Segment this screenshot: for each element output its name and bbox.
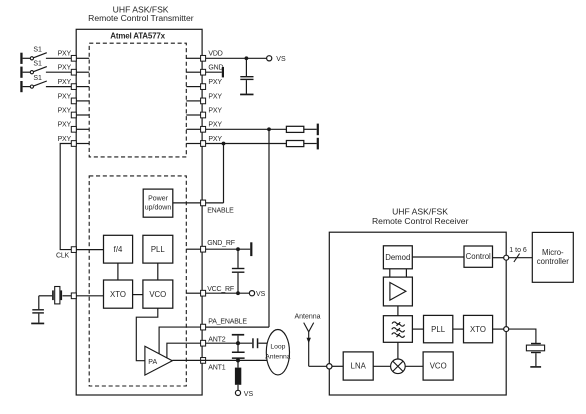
- svg-text:up/down: up/down: [145, 205, 172, 212]
- RF block (dashed): [89, 176, 186, 386]
- wire: GND_RF to ground tick: [206, 248, 251, 250]
- svg-text:PXY: PXY: [208, 93, 222, 100]
- svg-text:GND_RF: GND_RF: [207, 240, 235, 247]
- capacitor (crystal series): [32, 296, 44, 323]
- ground (rx crystal): [530, 366, 541, 368]
- svg-text:PXY: PXY: [58, 107, 72, 114]
- pin ANT2: [201, 336, 226, 346]
- block: PLL (rx): [424, 315, 453, 342]
- wire: mixer to VCO: [405, 365, 423, 367]
- resistor (row7): [286, 141, 316, 147]
- svg-text:XTO: XTO: [110, 290, 126, 299]
- terminal VS (ANT1 feed): [235, 390, 253, 398]
- svg-text:PXY: PXY: [58, 122, 72, 129]
- svg-text:LNA: LNA: [351, 362, 367, 371]
- loop antenna: [265, 330, 291, 375]
- pin CLK: [56, 247, 104, 260]
- wire: PXY row7 to resistor: [206, 143, 287, 145]
- junction GND_RF: [236, 247, 240, 251]
- termination bar (row7): [317, 138, 319, 150]
- terminal VS (supply): [267, 56, 286, 63]
- svg-text:Antenna: Antenna: [295, 313, 321, 320]
- svg-text:Power: Power: [148, 196, 169, 203]
- svg-text:XTO: XTO: [470, 325, 486, 334]
- antenna (rx): [295, 313, 321, 366]
- wire: VCC_RF to VS: [206, 292, 250, 294]
- svg-text:VS: VS: [256, 291, 266, 298]
- svg-text:PLL: PLL: [151, 245, 166, 254]
- bus slash (1 to 6): [509, 247, 527, 262]
- svg-text:ENABLE: ENABLE: [207, 207, 234, 214]
- block: VCO (tx): [143, 280, 173, 308]
- wire: VCO to PA input: [136, 308, 158, 361]
- junction ANT2 node: [236, 341, 240, 345]
- wire: XTO to edge terminal: [493, 328, 504, 330]
- wire: ANT2 pin to coupling cap: [206, 342, 253, 344]
- svg-text:PXY: PXY: [208, 79, 222, 86]
- terminal: XTO output: [504, 327, 509, 332]
- wire: row7 junction down to ENABLE: [223, 144, 225, 203]
- wire: left PXY7 to CLK loop: [60, 144, 71, 250]
- svg-text:Control: Control: [466, 252, 491, 261]
- svg-text:PXY: PXY: [208, 136, 222, 143]
- mixer: [391, 359, 406, 374]
- block: IF filter: [383, 316, 412, 343]
- svg-text:ANT2: ANT2: [208, 336, 225, 343]
- pin GND (right 2): [186, 65, 223, 75]
- svg-text:S1: S1: [33, 75, 42, 82]
- wire: PA_ENABLE into PA top: [159, 327, 201, 354]
- svg-text:Micro-: Micro-: [542, 248, 564, 257]
- junction VCC_RF: [236, 291, 240, 295]
- svg-text:PXY: PXY: [58, 51, 72, 58]
- svg-text:PXY: PXY: [58, 136, 72, 143]
- svg-text:controller: controller: [537, 257, 569, 266]
- wire: XTO to VCO: [133, 294, 143, 296]
- switch S1 (3): [20, 75, 71, 92]
- pin VDD (right 1): [186, 51, 222, 61]
- junction row7: [222, 142, 226, 146]
- pin PXY (left 5): [58, 107, 90, 117]
- pin VCC_RF: [186, 286, 234, 296]
- svg-text:Remote Control Receiver: Remote Control Receiver: [372, 216, 469, 226]
- switch S1 (2): [20, 61, 71, 78]
- svg-text:1 to 6: 1 to 6: [509, 247, 527, 254]
- wire: row6 junction down to PA_ENABLE: [268, 129, 270, 327]
- wire: filter to PLL: [412, 328, 423, 330]
- svg-text:VS: VS: [276, 56, 286, 63]
- pin PXY (left 3): [58, 79, 90, 89]
- pin GND_RF: [186, 240, 234, 252]
- block: PLL (tx): [143, 235, 173, 263]
- block: Micro-controller: [532, 232, 573, 282]
- inductor (ANT1 feed): [235, 360, 241, 390]
- terminal VS (VCC_RF): [249, 291, 265, 298]
- block: VCO (rx): [423, 352, 453, 380]
- svg-text:VCO: VCO: [430, 362, 447, 371]
- op-amp IF amplifier: [383, 277, 412, 306]
- block: Control: [464, 246, 493, 267]
- wire: Power up/down to ENABLE pin: [173, 202, 201, 204]
- svg-text:PXY: PXY: [58, 79, 72, 86]
- wire: Demod to Control: [412, 256, 464, 258]
- stub with bar above ANT2 node: [232, 334, 244, 343]
- pin PXY (right 5): [186, 107, 222, 117]
- wire: PA_ENABLE pin to row6 drop: [206, 326, 269, 328]
- capacitor (series to loop antenna): [252, 338, 267, 348]
- svg-text:PXY: PXY: [58, 65, 72, 72]
- bus: Demod to IF amplifier (double line): [390, 269, 407, 277]
- svg-text:VCO: VCO: [149, 290, 166, 299]
- wire: PA output / ANT1 to loop antenna: [172, 359, 267, 361]
- block: XTO (tx): [104, 280, 133, 308]
- block: f/4 divider: [104, 235, 133, 263]
- svg-text:PLL: PLL: [431, 325, 446, 334]
- wire: antenna to receiver input: [309, 365, 327, 367]
- svg-text:Demod: Demod: [385, 253, 410, 262]
- junction on VDD net: [245, 56, 249, 60]
- svg-text:VS: VS: [244, 391, 254, 398]
- terminal: antenna input: [327, 364, 332, 369]
- svg-text:ANT1: ANT1: [208, 364, 225, 371]
- svg-text:PXY: PXY: [208, 107, 222, 114]
- svg-text:PXY: PXY: [208, 122, 222, 129]
- wire: PLL to XTO: [453, 328, 464, 330]
- pin PXY (left 1): [58, 51, 90, 61]
- junction row6: [267, 127, 271, 131]
- wire: LNA to mixer: [373, 365, 390, 367]
- svg-text:Atmel ATA577x: Atmel ATA577x: [110, 32, 165, 41]
- termination bar (row6): [317, 124, 319, 136]
- svg-text:f/4: f/4: [114, 245, 123, 254]
- junction ANT1 node: [236, 358, 240, 362]
- svg-text:VCC_RF: VCC_RF: [207, 286, 234, 293]
- crystal (rx reference): [526, 343, 544, 366]
- block: Power up/down: [143, 189, 173, 217]
- svg-text:GND: GND: [208, 65, 223, 72]
- wire: PLL to VCO: [157, 263, 159, 280]
- svg-text:VDD: VDD: [208, 51, 222, 58]
- svg-text:PXY: PXY: [58, 93, 72, 100]
- pin PXY (right 7): [186, 136, 222, 146]
- svg-text:Loop: Loop: [270, 344, 285, 351]
- svg-text:PA_ENABLE: PA_ENABLE: [208, 318, 247, 325]
- pin PXY (left 6): [58, 122, 90, 132]
- wire: amplifier to filter: [397, 306, 399, 316]
- IC U1 Atmel ATA577x outer body: [76, 29, 202, 395]
- pin PXY (right 6): [186, 122, 222, 132]
- ground (crystal cap): [31, 323, 44, 325]
- capacitor (VDD blocking): [240, 58, 253, 94]
- capacitor (GND_RF to VCC_RF): [232, 249, 245, 293]
- pin PXY (left 7): [58, 136, 90, 146]
- crystal (tx reference): [39, 287, 72, 304]
- pin ANT1: [201, 358, 226, 372]
- wire: PXY row6 to resistor: [206, 128, 287, 130]
- wire: f/4 to XTO: [117, 263, 119, 280]
- ground (VDD cap): [240, 94, 253, 96]
- capacitor (ANT2 to ANT1): [232, 343, 245, 360]
- wire: terminal to microcontroller: [509, 257, 533, 259]
- pin ENABLE: [201, 200, 235, 214]
- pin XTAL: [71, 293, 103, 299]
- wire: VDD to VS: [206, 57, 267, 59]
- block: LNA: [343, 352, 373, 380]
- terminal: control output: [504, 255, 509, 260]
- svg-text:S1: S1: [33, 61, 42, 68]
- wire: XTO terminal to crystal: [509, 329, 536, 343]
- block: Demod: [383, 246, 412, 269]
- svg-text:Remote Control Transmitter: Remote Control Transmitter: [88, 13, 194, 23]
- pin PA_ENABLE: [201, 318, 248, 330]
- wire: mixer to filter: [397, 342, 399, 359]
- pin PXY (left 2): [58, 65, 90, 75]
- pin PXY (left 4): [58, 93, 90, 103]
- microcontroller core block (dashed): [89, 43, 186, 157]
- svg-text:Antenna: Antenna: [265, 353, 291, 360]
- op-amp PA (power amplifier): [145, 346, 172, 375]
- svg-text:PA: PA: [148, 359, 157, 366]
- ground tick at GND pin: [206, 67, 224, 77]
- svg-text:UHF ASK/FSK: UHF ASK/FSK: [392, 206, 448, 216]
- ground tick (GND_RF): [250, 242, 252, 256]
- wire: ANT2 into PA: [167, 343, 201, 357]
- pin PXY (right 3): [186, 79, 222, 89]
- switch S1 (1): [20, 47, 71, 64]
- block: XTO (rx): [464, 315, 493, 342]
- resistor (row6): [286, 126, 316, 132]
- svg-text:S1: S1: [33, 47, 42, 54]
- receiver outer body: [329, 232, 506, 395]
- wire: antenna terminal to LNA: [332, 365, 343, 367]
- pin PXY (right 4): [186, 93, 222, 103]
- svg-text:CLK: CLK: [56, 253, 70, 260]
- wire: Control to terminal: [493, 257, 504, 259]
